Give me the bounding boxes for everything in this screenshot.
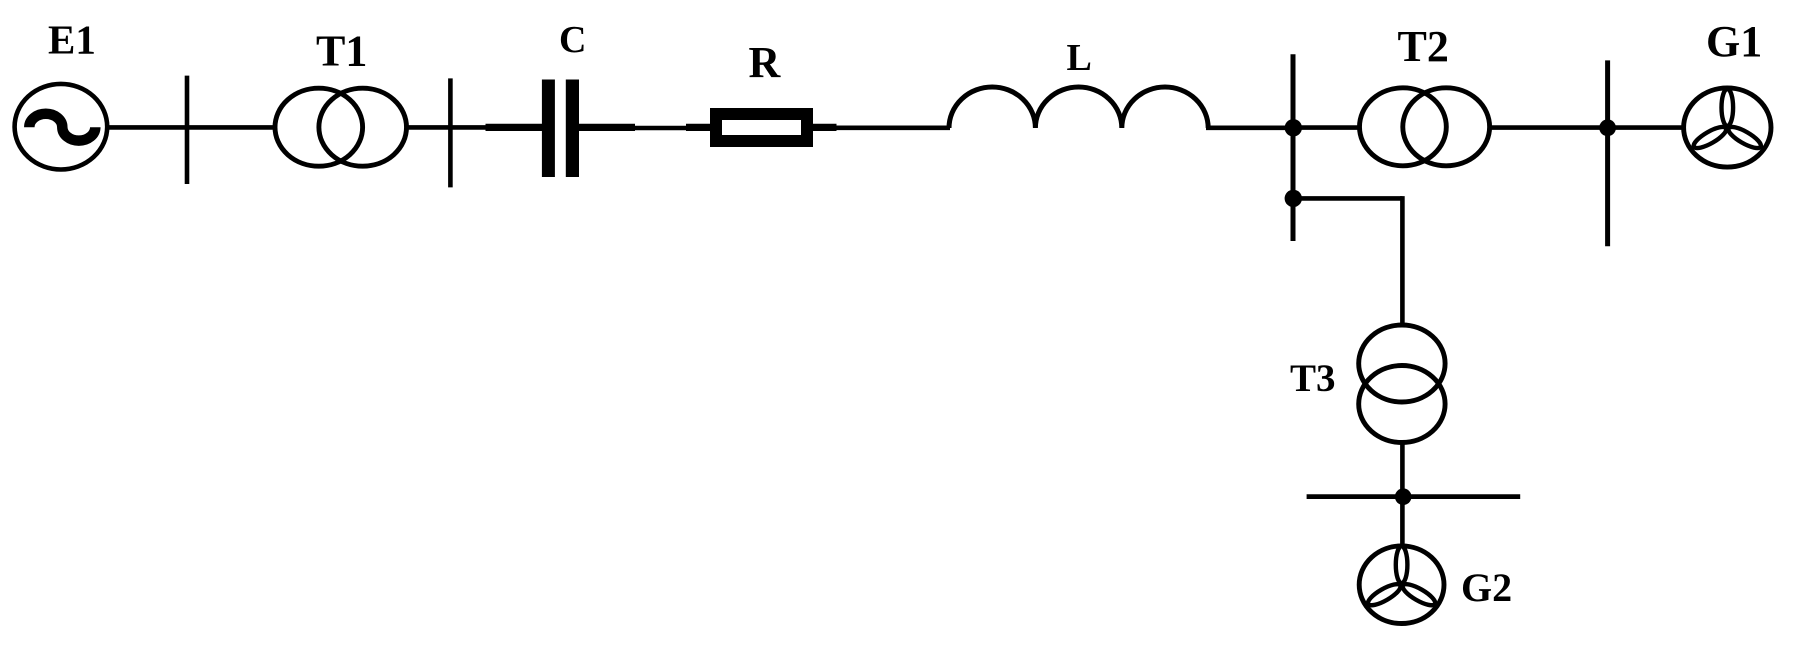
wire bus 4 to G2 <box>1400 497 1405 546</box>
capacitor C <box>542 80 579 178</box>
bus bar 4 <box>1307 494 1521 499</box>
wire T3 to bus 4 <box>1400 441 1405 498</box>
generator G2 <box>1359 546 1444 624</box>
svg-text:G2: G2 <box>1461 565 1512 610</box>
transformer T1 <box>275 88 407 166</box>
wire T1 to capacitor C <box>406 125 543 130</box>
AC source E1 <box>15 84 108 170</box>
bus bar 1 <box>185 76 190 184</box>
wire C to R <box>579 124 712 132</box>
transformer T3 <box>1359 325 1445 443</box>
svg-text:L: L <box>1067 37 1092 79</box>
svg-text:T3: T3 <box>1290 357 1336 400</box>
resistor R <box>716 114 807 141</box>
wire node A to T2 <box>1293 125 1359 130</box>
svg-text:C: C <box>559 19 586 61</box>
bus node A (vertical stub) <box>1291 54 1296 241</box>
junction dot bus 4 <box>1395 488 1412 505</box>
wire E1 to T1 <box>107 125 275 130</box>
generator G1 <box>1684 88 1771 167</box>
transformer T2 <box>1360 88 1490 166</box>
junction dot bus 3 <box>1599 119 1616 136</box>
junction dot node A <box>1285 119 1302 136</box>
wire L to node A <box>1206 126 1295 131</box>
bus bar 2 <box>448 78 453 187</box>
bus bar 3 <box>1605 60 1610 246</box>
svg-text:R: R <box>749 38 782 87</box>
wire node B to T3 (horizontal then vertical) <box>1293 196 1402 325</box>
wire R to L <box>811 124 950 132</box>
inductor L <box>949 87 1208 128</box>
junction dot node B <box>1285 190 1302 207</box>
svg-text:G1: G1 <box>1706 17 1762 66</box>
wire T2 to G1 <box>1489 125 1683 130</box>
svg-text:T2: T2 <box>1398 22 1449 71</box>
svg-text:T1: T1 <box>316 27 367 76</box>
svg-text:E1: E1 <box>48 17 96 63</box>
